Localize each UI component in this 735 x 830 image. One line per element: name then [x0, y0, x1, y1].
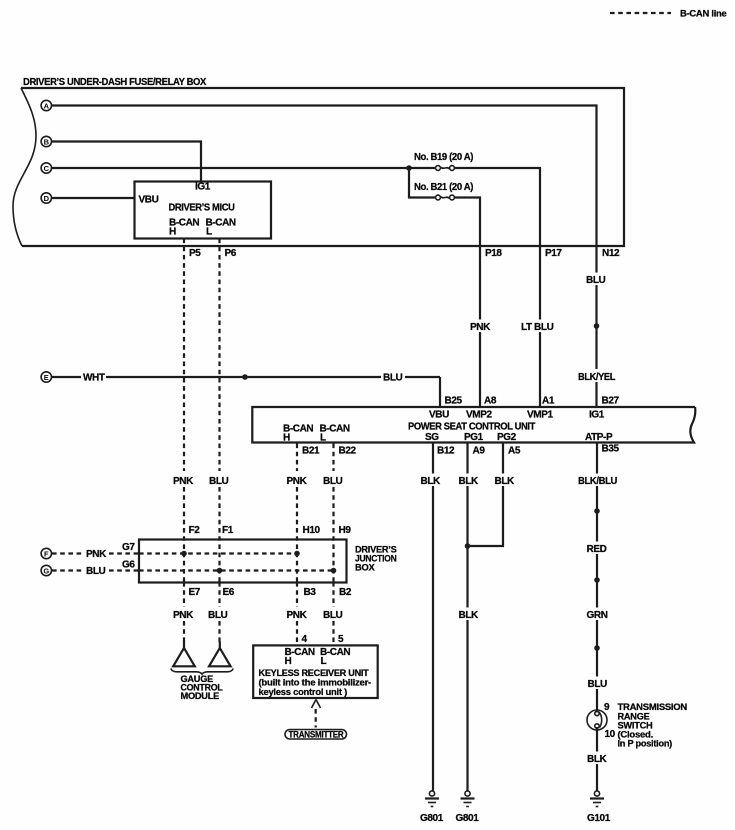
splice dot 1 on B35 wire: [594, 508, 600, 514]
svg-text:9: 9: [604, 702, 610, 713]
svg-text:G6: G6: [122, 560, 135, 571]
svg-text:SG: SG: [425, 432, 439, 443]
svg-text:RED: RED: [587, 544, 607, 555]
keyless receiver unit box: [253, 645, 378, 698]
svg-text:ATP-P: ATP-P: [585, 432, 613, 443]
svg-text:P5: P5: [189, 248, 201, 259]
junction dot A9/A5: [465, 543, 471, 549]
transmitter arrow (dashed): [312, 700, 321, 728]
svg-text:5: 5: [338, 634, 344, 645]
svg-text:LT BLU: LT BLU: [521, 322, 554, 333]
svg-text:P18: P18: [485, 248, 502, 259]
svg-text:B-CAN line: B-CAN line: [680, 9, 727, 19]
driver's junction box: [139, 540, 347, 583]
wire from fuse B19 to P17/A1: [454, 168, 540, 320]
connector C: [41, 163, 51, 173]
svg-text:No. B19 (20 A): No. B19 (20 A): [414, 152, 473, 163]
svg-text:PNK: PNK: [287, 610, 308, 621]
svg-text:POWER SEAT CONTROL UNIT: POWER SEAT CONTROL UNIT: [408, 422, 535, 433]
wire A to N12: [52, 106, 597, 273]
svg-text:BLU: BLU: [586, 275, 606, 286]
svg-text:L: L: [206, 227, 212, 238]
svg-text:No. B21 (20 A): No. B21 (20 A): [414, 182, 473, 193]
svg-text:PNK: PNK: [173, 476, 194, 487]
driver's MICU box: [135, 182, 272, 239]
svg-text:IG1: IG1: [195, 182, 211, 193]
splice dot on N12 wire: [594, 323, 600, 329]
svg-text:E: E: [44, 373, 49, 382]
svg-text:BLK: BLK: [587, 754, 608, 765]
wire B35 to transmission range switch: [596, 444, 598, 474]
svg-text:B27: B27: [602, 396, 620, 407]
wire branch to fuse B21: [409, 168, 436, 198]
svg-text:(built into the immobilizer-: (built into the immobilizer-: [259, 678, 372, 688]
svg-text:H: H: [283, 433, 290, 444]
svg-text:BLU: BLU: [588, 679, 608, 690]
svg-text:G101: G101: [587, 813, 611, 824]
gauge control module label: [181, 674, 224, 701]
connector F: [41, 548, 51, 558]
svg-text:BLU: BLU: [323, 476, 343, 487]
svg-text:A: A: [44, 101, 50, 110]
svg-text:PNK: PNK: [470, 322, 491, 333]
transmitter: [285, 729, 347, 739]
svg-text:E6: E6: [223, 587, 235, 598]
wire D to VBU: [52, 197, 135, 199]
driver's under-dash fuse/relay box outline: [13, 88, 624, 246]
svg-text:MODULE: MODULE: [181, 691, 220, 701]
svg-text:L: L: [320, 433, 326, 444]
wire E WHT/BLU to B25: [52, 373, 441, 407]
svg-text:4: 4: [302, 634, 308, 645]
gauge control module antenna 2: [209, 642, 231, 667]
svg-text:G801: G801: [420, 813, 444, 824]
svg-text:B35: B35: [602, 444, 620, 455]
svg-text:B3: B3: [304, 587, 317, 598]
svg-text:VBU: VBU: [139, 195, 159, 206]
dashed wire F PNK to G7: [52, 549, 139, 560]
svg-text:WHT: WHT: [83, 373, 105, 384]
connector E: [41, 372, 51, 382]
svg-text:F: F: [44, 549, 49, 558]
svg-text:B22: B22: [339, 446, 357, 457]
svg-text:BLK: BLK: [459, 476, 480, 487]
splice dot 2 on B35 wire: [594, 577, 600, 583]
fuse No. B19 (20 A): [414, 152, 473, 170]
svg-text:BLK: BLK: [421, 476, 442, 487]
wire A5 joining A9: [502, 444, 504, 474]
junction box F row dot H10: [294, 551, 300, 557]
wire B to IG1 of driver's MICU: [52, 142, 202, 183]
svg-text:A9: A9: [473, 446, 486, 457]
svg-text:BLU: BLU: [208, 610, 228, 621]
svg-text:BLU: BLU: [209, 476, 229, 487]
B-CAN H line P5 column (dashed): [183, 239, 185, 643]
svg-text:B2: B2: [339, 587, 352, 598]
svg-text:VMP1: VMP1: [527, 410, 553, 421]
svg-text:TRANSMITTER: TRANSMITTER: [289, 729, 345, 739]
svg-text:F2: F2: [189, 525, 201, 536]
svg-text:BLK/YEL: BLK/YEL: [578, 372, 615, 383]
svg-text:VMP2: VMP2: [466, 410, 492, 421]
power seat control unit box: [252, 407, 695, 444]
svg-text:H10: H10: [303, 525, 321, 536]
svg-text:F1: F1: [222, 525, 234, 536]
svg-text:D: D: [44, 194, 50, 203]
svg-text:BLU: BLU: [383, 373, 403, 384]
ground G801 (B12): [420, 791, 444, 824]
svg-text:N12: N12: [602, 248, 620, 259]
B-CAN H line B21 column (dashed): [296, 444, 298, 646]
splice dot 3 on B35 wire: [594, 645, 600, 651]
svg-text:DRIVER’S MICU: DRIVER’S MICU: [169, 203, 235, 214]
svg-text:BLU: BLU: [323, 610, 343, 621]
B-CAN L line B22 column (dashed): [332, 444, 334, 646]
svg-text:BLU: BLU: [86, 566, 106, 577]
wire from switch to G101: [596, 727, 598, 752]
svg-text:KEYLESS RECEIVER UNIT: KEYLESS RECEIVER UNIT: [259, 668, 370, 678]
transmission range switch: [587, 710, 607, 730]
svg-text:10: 10: [605, 729, 616, 740]
svg-text:In P position): In P position): [618, 739, 673, 749]
legend B-CAN line: [610, 9, 727, 19]
svg-text:H9: H9: [339, 525, 352, 536]
wire B12 to ground: [432, 444, 434, 474]
svg-text:A8: A8: [484, 396, 497, 407]
svg-text:L: L: [321, 656, 327, 667]
svg-text:H: H: [169, 227, 176, 238]
svg-text:keyless control unit ): keyless control unit ): [259, 687, 348, 697]
svg-text:TRANSMISSION: TRANSMISSION: [618, 702, 688, 712]
svg-text:B: B: [44, 137, 50, 146]
svg-text:P6: P6: [225, 248, 237, 259]
svg-text:G801: G801: [456, 813, 480, 824]
connector A: [41, 100, 51, 110]
svg-text:BLK: BLK: [495, 476, 516, 487]
wire C: [52, 167, 437, 169]
gauge control module antenna 1: [173, 642, 195, 667]
connector G: [41, 565, 51, 575]
svg-text:DRIVER’S UNDER-DASH FUSE/RELAY: DRIVER’S UNDER-DASH FUSE/RELAY BOX: [23, 77, 207, 88]
junction node on wire C: [406, 165, 412, 171]
junction box G row (dashed): [139, 569, 334, 571]
ground G101: [587, 791, 611, 824]
svg-text:C: C: [44, 164, 50, 173]
wire from fuse B21 to P18/A8: [454, 198, 480, 320]
svg-text:B12: B12: [437, 446, 455, 457]
driver's junction box label: [355, 545, 397, 573]
junction box G row dot F1: [217, 568, 223, 574]
svg-text:PNK: PNK: [287, 476, 308, 487]
svg-text:GRN: GRN: [587, 610, 608, 621]
transmission range switch label: [618, 702, 688, 749]
junction box F row dot F2: [181, 551, 187, 557]
svg-text:BLK: BLK: [459, 610, 480, 621]
svg-text:E7: E7: [189, 587, 201, 598]
svg-text:PG2: PG2: [497, 432, 517, 443]
svg-text:BOX: BOX: [355, 563, 375, 573]
svg-text:G: G: [43, 566, 49, 575]
svg-text:H: H: [285, 656, 292, 667]
connector D: [41, 193, 51, 203]
svg-text:A1: A1: [542, 396, 555, 407]
connector B: [41, 136, 51, 146]
svg-text:PG1: PG1: [464, 432, 484, 443]
svg-text:PNK: PNK: [173, 610, 194, 621]
svg-text:PNK: PNK: [86, 549, 107, 560]
junction box G row dot H9: [331, 568, 337, 574]
dashed wire G BLU to G6: [52, 566, 139, 577]
svg-text:IG1: IG1: [589, 410, 605, 421]
svg-text:A5: A5: [508, 446, 521, 457]
svg-text:B25: B25: [445, 396, 463, 407]
B-CAN L line P6 column (dashed): [218, 239, 220, 643]
svg-text:G7: G7: [122, 542, 135, 553]
svg-text:P17: P17: [545, 248, 562, 259]
junction box F row (dashed): [139, 552, 297, 554]
svg-text:VBU: VBU: [429, 410, 449, 421]
gauge control module brace: [171, 669, 233, 675]
svg-text:BLK/BLU: BLK/BLU: [578, 476, 617, 487]
svg-text:B21: B21: [302, 446, 320, 457]
wire A9 to ground: [466, 444, 468, 474]
ground G801 (A9): [456, 791, 480, 824]
fuse No. B21 (20 A): [414, 182, 473, 200]
